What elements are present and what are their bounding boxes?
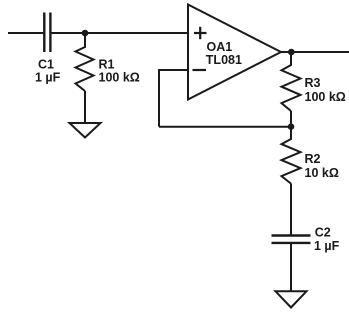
wire R1 to ground [84, 91, 86, 123]
resistor R2 [282, 127, 301, 184]
svg-text:100 kΩ: 100 kΩ [305, 90, 346, 104]
op-amp OA1 body [188, 5, 281, 100]
node output junction dot [288, 49, 295, 56]
wire R3 to node B [290, 111, 292, 127]
svg-text:OA1: OA1 [207, 40, 233, 54]
svg-text:R3: R3 [305, 76, 321, 90]
wire feedback minus input stub [159, 69, 188, 71]
wire input to C1 [8, 32, 44, 34]
svg-text:C1: C1 [38, 58, 54, 72]
svg-text:R1: R1 [99, 58, 115, 72]
wire feedback vertical [158, 69, 160, 127]
op-amp minus input symbol [193, 69, 207, 71]
capacitor C1 [44, 13, 50, 53]
resistor R1 [76, 33, 94, 91]
ground [70, 123, 101, 138]
svg-text:TL081: TL081 [206, 53, 242, 67]
resistor R3 [282, 52, 301, 111]
svg-text:1 µF: 1 µF [35, 71, 61, 85]
wire op-amp output [281, 51, 349, 53]
svg-text:R2: R2 [305, 152, 321, 166]
svg-text:C2: C2 [315, 226, 331, 240]
ground [276, 291, 307, 307]
wire feedback bottom horizontal [159, 126, 291, 128]
capacitor C2 [272, 236, 311, 243]
wire C1 to op-amp + input [51, 32, 188, 34]
svg-text:10 kΩ: 10 kΩ [305, 166, 339, 180]
svg-text:100 kΩ: 100 kΩ [99, 71, 140, 85]
op-amp plus input symbol [194, 27, 207, 39]
wire R2 to C2 [290, 184, 292, 235]
node A junction dot [82, 30, 89, 37]
node B junction dot [288, 123, 295, 130]
wire C2 to ground [290, 243, 292, 291]
svg-text:1 µF: 1 µF [314, 239, 340, 253]
